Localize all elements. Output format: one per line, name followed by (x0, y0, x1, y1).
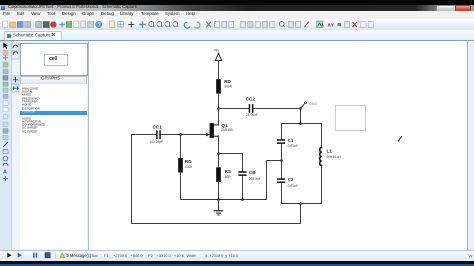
wire: tank bottom to feedback rail (300, 204, 302, 224)
node: tank top junction (299, 122, 302, 125)
wire: ground rail (181, 199, 267, 201)
mouse cursor (pencil) (398, 137, 401, 141)
wire: tank left rail upper (281, 124, 283, 140)
svg-text:Box: Box (92, 253, 99, 258)
wire: RG bottom lead (180, 172, 182, 199)
svg-text:C2: C2 (288, 177, 294, 182)
taskbar (0, 261, 474, 264)
svg-text:P2: P2 (148, 253, 153, 258)
svg-text:+2310.0: +2310.0 (209, 253, 224, 258)
svg-text:CC1: CC1 (153, 125, 163, 130)
svg-text:x: x (206, 253, 208, 258)
window title bar (0, 5, 474, 12)
toolbar (0, 19, 474, 32)
svg-text:RD: RD (224, 79, 231, 84)
capacitor C1 (277, 138, 298, 148)
black strip at very top (0, 0, 474, 5)
capacitor CB (238, 170, 260, 181)
svg-text:RG: RG (185, 159, 192, 164)
status bar (0, 250, 474, 262)
preview pane (20, 43, 88, 76)
svg-text:+10.5: +10.5 (174, 253, 184, 258)
svg-text:21.05nF: 21.05nF (246, 113, 258, 117)
svg-text:0.01uF: 0.01uF (288, 184, 298, 188)
wire: CB bottom lead (242, 176, 244, 200)
svg-text:F1:: F1: (104, 253, 110, 258)
wire: source lead (218, 136, 220, 153)
svg-text:+2700.0: +2700.0 (113, 253, 128, 258)
svg-text:Width: Width (187, 253, 197, 258)
wire: CC2 to output node (254, 108, 301, 110)
power terminal +9V (213, 48, 221, 60)
svg-text:C1: C1 (288, 138, 294, 143)
node: tank bottom junction (299, 202, 302, 205)
svg-text:+540.0: +540.0 (131, 253, 144, 258)
node: drain junction (217, 107, 220, 110)
transistor Q1 2N5459 (206, 123, 233, 138)
capacitor CC1 (149, 125, 163, 144)
svg-text:+9V: +9V (213, 48, 220, 52)
capacitor C2 (277, 177, 298, 188)
left panel (12, 41, 89, 250)
node: C1/C2 midpoint junction (280, 159, 283, 162)
node: source junction (217, 152, 220, 155)
canvas (88, 41, 468, 250)
svg-text:?: ? (98, 22, 101, 28)
svg-text:W: W (469, 253, 473, 258)
svg-text:y: y (225, 253, 227, 258)
svg-text:5 Message(s): 5 Message(s) (67, 253, 92, 258)
wire: tank bottom edge (282, 203, 322, 205)
svg-text:L1: L1 (327, 148, 333, 153)
wire: CC1 to gate (161, 134, 210, 136)
svg-text:≋: ≋ (337, 22, 342, 28)
GRAPHS header (20, 76, 87, 86)
right window edge (467, 41, 474, 250)
capacitor CC2 (246, 97, 258, 117)
tab bar (0, 30, 474, 40)
schematic drawing (88, 41, 467, 249)
node: gate/RG junction (179, 133, 182, 136)
wire: tank left rail lower (281, 183, 283, 204)
window buttons (436, 5, 457, 13)
node: CB/ground junction (241, 198, 244, 201)
voltage probe C1(1) (301, 101, 317, 108)
resistor RG (178, 158, 192, 172)
svg-text:CC2: CC2 (246, 97, 256, 102)
wire: RD bottom to drain node (218, 93, 220, 108)
list area (20, 84, 87, 249)
menu bar (0, 11, 474, 19)
wire: feedback left riser (131, 135, 133, 224)
wire: drain node to CC2 (219, 108, 249, 110)
wire: +9V to RD top (218, 61, 220, 80)
resistor RD (216, 79, 232, 94)
svg-text:A: A (3, 170, 7, 176)
wire: RS top lead (218, 154, 220, 168)
ground (214, 200, 223, 216)
main background (0, 41, 474, 250)
left icon strip (0, 41, 12, 250)
wire: feedback bottom rail (132, 223, 301, 225)
svg-text:506.61uH: 506.61uH (327, 155, 342, 159)
svg-text:103.24pF: 103.24pF (149, 140, 163, 144)
svg-text:265.3nF: 265.3nF (249, 177, 261, 181)
wire: RS bottom lead (218, 182, 220, 200)
resistor RS (216, 168, 231, 182)
wire: tank right rail lower (321, 166, 323, 204)
svg-text:2N5459: 2N5459 (221, 128, 233, 132)
svg-text:60R: 60R (225, 175, 232, 179)
svg-text:0.01uF: 0.01uF (288, 144, 298, 148)
wire: midpoint to ground rail (267, 161, 282, 200)
svg-text:ʌʏ: ʌʏ (328, 22, 335, 28)
svg-text:C1(1): C1(1) (309, 101, 317, 105)
wire: tank right rail upper (321, 124, 323, 148)
wire: drain lead (218, 109, 220, 125)
svg-text:CB: CB (249, 170, 256, 175)
node: output junction (299, 107, 302, 110)
svg-text:RS: RS (225, 169, 231, 174)
selection box (pink) (335, 105, 365, 130)
inductor L1 (320, 148, 342, 166)
svg-text:+10.0: +10.0 (229, 253, 240, 258)
wire: output node down to tank top (300, 109, 302, 124)
wire: left riser to CC1 (132, 134, 157, 136)
wire: RG top lead (180, 135, 182, 159)
svg-text:100k: 100k (185, 165, 193, 169)
node: RS/ground junction (217, 198, 220, 201)
small buttons column (11, 42, 20, 102)
wire: tank left rail middle (281, 144, 283, 178)
wire: source to CB (219, 154, 243, 172)
svg-text:+3310.0: +3310.0 (157, 253, 172, 258)
wire: tank top edge (282, 123, 322, 125)
svg-text:500R: 500R (224, 84, 233, 88)
